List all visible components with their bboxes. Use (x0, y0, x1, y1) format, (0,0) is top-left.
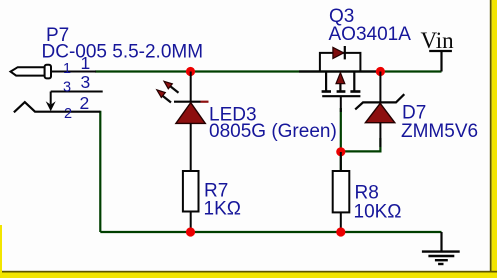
svg-text:10KΩ: 10KΩ (354, 202, 402, 223)
svg-text:DC-005 5.5-2.0MM: DC-005 5.5-2.0MM (42, 42, 204, 63)
wire: D7 anode elbow (341, 138, 381, 151)
node drain junction dot (376, 67, 385, 76)
svg-text:1KΩ: 1KΩ (204, 199, 241, 220)
svg-text:3: 3 (63, 80, 71, 96)
wire: gate node vertical (340, 108, 342, 171)
yellow border bottom (0, 271, 497, 278)
LED3 light arrow 2 (157, 90, 171, 103)
ground (422, 232, 460, 264)
wire: bottom ground rail (100, 231, 441, 233)
svg-text:R8: R8 (355, 183, 379, 204)
svg-text:0805G (Green): 0805G (Green) (209, 121, 337, 142)
svg-text:2: 2 (64, 106, 72, 122)
connector P7 barrel pin 1 (11, 65, 97, 79)
svg-text:ZMM5V6: ZMM5V6 (401, 121, 478, 142)
node bottom rail dot left (186, 227, 195, 236)
Q3 body diode (333, 46, 345, 59)
wire: jack pin2 drop (99, 111, 101, 232)
node gate junction dot (336, 147, 345, 156)
P7 pin numbers (63, 53, 90, 122)
Q3 bulk arrow (336, 73, 345, 84)
svg-text:2: 2 (80, 93, 90, 113)
LED3 (174, 72, 209, 172)
zener diode D7 (355, 72, 404, 148)
resistor R8 (333, 152, 350, 232)
connector P7 pin 3 line (51, 91, 103, 93)
net label Vin (421, 28, 455, 72)
connector P7 switch arrow (pin3 to pin2) (46, 92, 56, 112)
yellow border left (partial) (0, 225, 2, 278)
resistor R7 (183, 171, 199, 232)
svg-text:1: 1 (63, 61, 71, 77)
svg-text:AO3401A: AO3401A (329, 24, 412, 45)
wire: top rail pin1 to Vin corner (95, 70, 442, 72)
connector P7 pin 2 sleeve (14, 102, 100, 112)
svg-text:3: 3 (81, 72, 91, 92)
svg-text:Vin: Vin (421, 28, 455, 53)
LED3 light arrow 1 (164, 81, 179, 92)
transistor Q3 p-mosfet (299, 53, 381, 112)
node bottom rail dot right (336, 227, 345, 236)
node LED junction dot (186, 67, 195, 76)
yellow border right (490, 0, 497, 278)
